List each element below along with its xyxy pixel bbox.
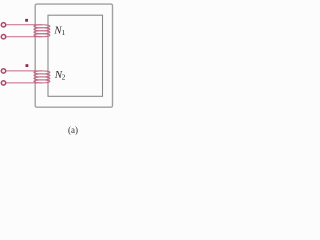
terminal 4 (bottom of N2) — [1, 81, 5, 85]
terminal 1 (top of N1) — [1, 23, 5, 27]
polarity dot of N2 — [26, 64, 29, 67]
polarity dot of N1 — [25, 19, 28, 22]
svg-text:2: 2 — [62, 73, 66, 82]
winding N1 turns — [34, 25, 50, 37]
winding N2 turns — [34, 71, 50, 83]
terminal 2 (bottom of N1) — [1, 35, 5, 39]
background — [0, 0, 117, 137]
svg-text:1: 1 — [62, 28, 66, 37]
terminal 3 (top of N2) — [1, 69, 5, 73]
wire from terminal 3 — [6, 70, 42, 72]
core outer rectangle — [35, 4, 112, 107]
wire from terminal 1 — [6, 24, 42, 26]
wire to terminal 4 — [6, 82, 42, 84]
wire to terminal 2 — [6, 36, 42, 38]
core inner rectangle — [48, 15, 103, 96]
svg-text:(a): (a) — [68, 125, 78, 135]
